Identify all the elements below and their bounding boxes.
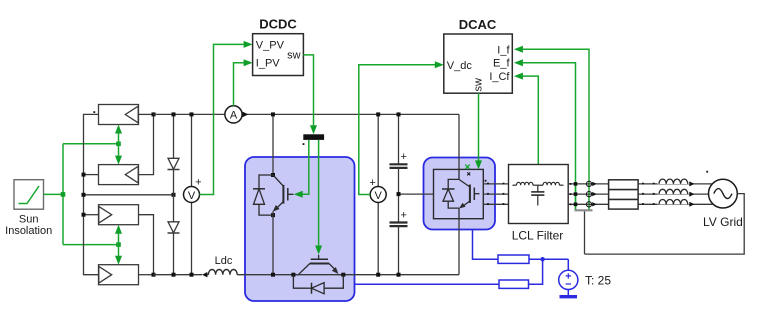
wire phase b inverter to LCL xyxy=(483,193,508,195)
source block Sun Insolation xyxy=(5,180,52,237)
wire green V1 to DCDC V_PV xyxy=(200,41,253,195)
wire phase a inverter to LCL xyxy=(483,183,508,185)
svg-text:LV Grid: LV Grid xyxy=(703,215,743,229)
svg-text:V: V xyxy=(188,190,196,202)
diode D5 inverter xyxy=(442,179,459,208)
blue highlight region inverter xyxy=(424,158,496,230)
svg-text:+: + xyxy=(400,151,406,163)
svg-text:DCDC: DCDC xyxy=(259,17,297,32)
thermal wire Rth2 to junction xyxy=(529,259,543,284)
probe dot demux xyxy=(303,143,305,145)
transistor Q2 boost IGBT horizontal xyxy=(291,255,345,277)
svg-text:DCAC: DCAC xyxy=(459,17,497,32)
wire green arrow up into PV3 xyxy=(115,225,122,245)
probe dot PV1 xyxy=(93,111,95,113)
svg-text:sw: sw xyxy=(473,78,485,92)
capacitor C2 dc link bottom xyxy=(390,194,408,277)
node V1 bottom xyxy=(190,273,194,277)
thermal wire Rth1 to junction xyxy=(529,258,568,260)
node top bus PV junction xyxy=(152,112,156,116)
controller block DCDC xyxy=(253,17,304,76)
wire top bus xyxy=(154,113,460,115)
wire PV1 right stub xyxy=(139,113,154,115)
wire green gate2 to Q2 xyxy=(315,140,322,255)
svg-text:A: A xyxy=(230,110,238,122)
wire green I_Cf from LCL xyxy=(514,73,538,165)
svg-text:sw: sw xyxy=(287,50,301,62)
transistor Q1 boost IGBT with diode D3 xyxy=(271,112,294,274)
tap column I_f with meter rings xyxy=(586,181,596,207)
inductor grid phase a xyxy=(658,179,695,186)
controller block DCAC xyxy=(444,17,513,93)
port dots LCL right xyxy=(570,183,572,205)
wire green gate1 to Q1 xyxy=(294,140,309,198)
blue highlight region boost converter xyxy=(245,157,355,301)
filter block LCL xyxy=(509,165,569,243)
voltmeter V1 PV xyxy=(184,114,202,274)
node diode D1 top xyxy=(172,112,176,116)
inductor grid phase b xyxy=(658,189,695,196)
wire dc plus down into inverter xyxy=(458,114,460,169)
wire sun output green xyxy=(44,193,64,195)
diode D2 bypass bottom xyxy=(168,195,180,275)
node rail PV3 xyxy=(82,213,86,217)
PV panel block PV3 xyxy=(99,205,139,225)
reference bar gray xyxy=(575,210,593,254)
wire dc mid to inverter xyxy=(397,192,434,196)
svg-text:+: + xyxy=(400,209,406,221)
probe dot inverter xyxy=(485,180,487,182)
capacitor C1 dc link top xyxy=(390,112,408,194)
wire green arrow down into PV2 xyxy=(115,144,122,165)
node green junction sun xyxy=(61,192,66,197)
svg-text:I_PV: I_PV xyxy=(256,58,281,70)
svg-text:Insolation: Insolation xyxy=(5,225,52,237)
ammeter A1 xyxy=(225,106,248,123)
svg-text:V_dc: V_dc xyxy=(447,60,473,72)
PV panel block PV4 xyxy=(99,265,139,285)
wire green branch bottom xyxy=(63,244,119,246)
wire PV3 left stub xyxy=(84,214,99,216)
tap column E_f with dots xyxy=(574,182,578,210)
svg-text:T: 25: T: 25 xyxy=(585,273,611,287)
node thermal junction xyxy=(540,257,544,261)
svg-text:Sun: Sun xyxy=(19,214,39,226)
wire PV4 right stub xyxy=(139,274,154,276)
thermal resistor Rth2 xyxy=(499,280,529,288)
wire PV2 right riser xyxy=(139,114,154,174)
ground thermal xyxy=(560,290,578,297)
node rail PV2 xyxy=(82,173,86,177)
node mid diode xyxy=(172,193,176,197)
wire bottom bus left xyxy=(154,274,460,276)
port dots inverter LCL xyxy=(487,183,504,205)
svg-text:E_f: E_f xyxy=(493,58,510,70)
voltmeter V2 dc link xyxy=(369,112,386,276)
inductor Ldc xyxy=(202,255,237,278)
wire left rail xyxy=(84,114,99,274)
inductor grid phase c xyxy=(658,200,695,207)
wire grid return loop xyxy=(585,194,745,255)
svg-text:+: + xyxy=(369,177,375,189)
svg-text:I_f: I_f xyxy=(497,44,510,56)
wire green arrow up into PV1 xyxy=(115,125,122,144)
svg-text:V_PV: V_PV xyxy=(256,39,285,51)
wire green V2 to DCAC V_dc xyxy=(359,61,444,194)
thermal resistor Rth1 xyxy=(498,255,529,263)
diode D4 freewheel loop xyxy=(293,275,343,294)
node rail mid xyxy=(82,193,86,197)
node bottom bus PV junction xyxy=(152,273,156,277)
wire mid tap line xyxy=(84,194,174,196)
thermal wire junction to source xyxy=(567,259,569,271)
node diode D2 bottom xyxy=(172,273,176,277)
probe dot grid xyxy=(706,171,708,173)
svg-text:Ldc: Ldc xyxy=(215,255,233,267)
source LV Grid xyxy=(703,179,743,229)
wire green E_f from taps xyxy=(514,59,576,210)
node green junction bottom xyxy=(116,242,121,247)
breaker block three phase xyxy=(609,180,639,209)
svg-text:V: V xyxy=(375,190,383,202)
wire phase b LCL to grid xyxy=(568,193,708,195)
svg-text:LCL Filter: LCL Filter xyxy=(512,229,564,243)
PV panel block PV2 xyxy=(99,165,139,185)
wire green I_f from taps xyxy=(514,46,589,210)
transistor Q3 inverter IGBT xyxy=(457,169,479,218)
thermal wire from boost xyxy=(355,283,500,285)
wire green arrow down into PV4 xyxy=(115,245,122,265)
wire green DCDC sw to demux xyxy=(303,55,317,134)
node V1 top xyxy=(190,112,194,116)
wire green A1 to DCDC I_PV xyxy=(234,59,253,106)
source T thermal xyxy=(559,270,612,289)
wire phase a LCL to grid xyxy=(568,183,712,185)
gate demux bar xyxy=(303,134,324,140)
inverter inner block U1 xyxy=(434,169,484,218)
gate marker green x xyxy=(465,165,470,176)
wire green rail vertical xyxy=(62,144,64,245)
wire phase c inverter to LCL xyxy=(483,203,508,205)
diode D3 antiparallel xyxy=(253,175,273,215)
wire green DCAC sw to inverter gate xyxy=(475,93,482,169)
svg-text:+: + xyxy=(195,177,201,189)
PV panel block PV1 xyxy=(99,105,139,125)
wire green branch top xyxy=(63,143,119,145)
node green junction top xyxy=(116,142,121,147)
wire phase c LCL to grid xyxy=(568,203,712,205)
wire PV3 right riser xyxy=(139,215,154,275)
diode D1 bypass top xyxy=(168,114,180,194)
port dots breaker to coils xyxy=(642,183,655,205)
svg-text:I_Cf: I_Cf xyxy=(489,71,510,83)
wire dc minus from inverter to bottom bus xyxy=(458,219,460,275)
wire PV2 left stub xyxy=(84,174,99,176)
thermal wire from inverter xyxy=(473,230,499,260)
node Q1 bottom bus xyxy=(271,273,275,277)
